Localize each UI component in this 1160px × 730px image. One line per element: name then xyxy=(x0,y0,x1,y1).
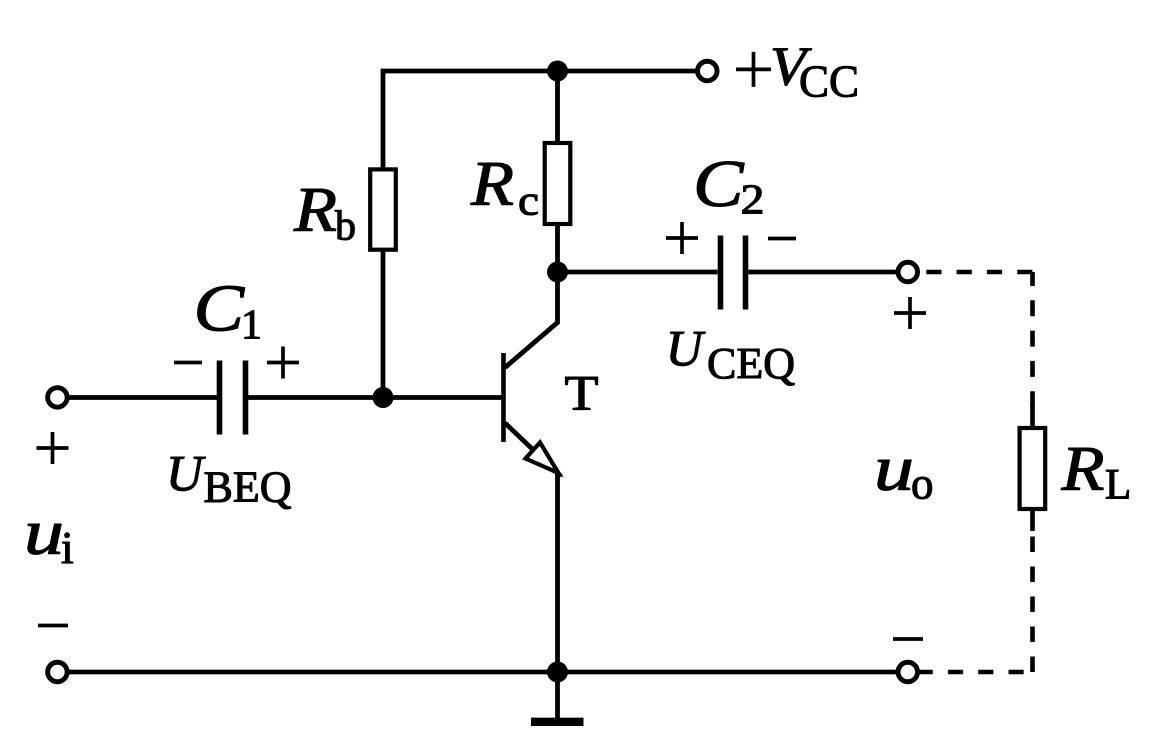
svg-text:CC: CC xyxy=(799,57,859,107)
svg-text:R: R xyxy=(1060,434,1104,504)
svg-text:L: L xyxy=(1105,462,1131,509)
svg-text:u: u xyxy=(874,432,914,504)
svg-text:u: u xyxy=(24,497,64,569)
svg-text:i: i xyxy=(61,522,74,573)
svg-text:R: R xyxy=(470,149,514,219)
svg-text:BEQ: BEQ xyxy=(204,462,292,511)
svg-text:C: C xyxy=(693,147,745,221)
svg-text:2: 2 xyxy=(741,178,765,224)
svg-text:U: U xyxy=(666,321,706,377)
svg-text:1: 1 xyxy=(241,302,262,348)
svg-text:T: T xyxy=(565,365,599,421)
svg-text:C: C xyxy=(194,272,246,346)
svg-text:U: U xyxy=(166,446,206,502)
svg-text:o: o xyxy=(911,459,934,509)
svg-text:b: b xyxy=(335,204,356,250)
svg-text:c: c xyxy=(518,178,539,224)
svg-text:CEQ: CEQ xyxy=(707,339,795,388)
svg-text:R: R xyxy=(293,175,337,245)
